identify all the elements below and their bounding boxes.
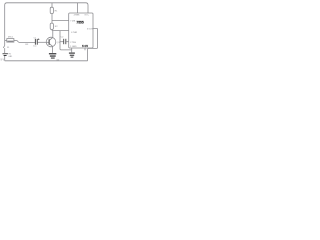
wire R1 top xyxy=(51,3,53,7)
transistor Q1 circle xyxy=(46,37,56,47)
wire node to pin 7 xyxy=(52,20,69,22)
capacitor C1 polarity plus xyxy=(38,38,40,41)
resistor R2 xyxy=(50,23,53,29)
wire C2 right plate to pin 2 xyxy=(66,41,68,43)
svg-text:4 RES: 4 RES xyxy=(74,15,80,17)
wire pin 4 drop xyxy=(77,3,79,13)
svg-text:3 OUT: 3 OUT xyxy=(87,28,94,30)
wire pin 1 down xyxy=(71,48,73,52)
svg-text:R2: R2 xyxy=(55,26,59,28)
wire branch down from pin6 node xyxy=(60,31,72,50)
wire jog down xyxy=(17,40,19,42)
wire to C1 xyxy=(19,41,35,43)
battery B1 short plate xyxy=(4,55,7,56)
svg-text:5 CV: 5 CV xyxy=(82,45,88,48)
wire bottom 0V rail xyxy=(5,60,88,62)
svg-text:MIC1: MIC1 xyxy=(8,37,14,39)
capacitor C2 plates xyxy=(62,39,65,44)
wire S1 bottom to battery xyxy=(4,48,6,53)
wire R2 bottom xyxy=(51,30,53,31)
svg-text:9 V: 9 V xyxy=(1,59,5,62)
svg-text:R1: R1 xyxy=(55,10,59,12)
switch S1 blade xyxy=(3,45,4,48)
wire rail to MIC1 xyxy=(5,39,7,41)
wire C1 to base xyxy=(38,41,49,43)
svg-text:8 V+: 8 V+ xyxy=(85,15,90,17)
transistor Q1 emitter diagonal xyxy=(50,44,53,47)
ground G1 bars xyxy=(49,53,56,54)
wire MIC1 to jog xyxy=(14,39,17,41)
wire emitter down to ground xyxy=(52,46,54,53)
capacitor C1 plates xyxy=(34,39,37,45)
svg-text:7555: 7555 xyxy=(76,21,84,25)
svg-text:R3: R3 xyxy=(25,44,29,46)
wire node to pin 6 xyxy=(52,30,69,32)
svg-text:C1: C1 xyxy=(34,37,38,39)
wire to C2 left plate xyxy=(60,41,63,43)
microphone MIC1 box xyxy=(7,39,14,43)
transistor Q1 base bar xyxy=(49,39,50,45)
wire V+ rail: left rail up, top rail, down to pin 8 xyxy=(5,3,88,41)
svg-text:6 THR: 6 THR xyxy=(71,32,77,34)
svg-text:GB1: GB1 xyxy=(8,56,13,58)
transistor Q1 collector diagonal xyxy=(50,37,53,40)
battery B1 long plate xyxy=(3,52,8,55)
wire battery bottom to rail xyxy=(4,56,6,61)
wire collector riser xyxy=(52,31,54,37)
wire output pin 3 to right and down to rail xyxy=(88,28,98,60)
svg-text:7 DIS: 7 DIS xyxy=(70,20,76,22)
svg-text:10u: 10u xyxy=(33,45,36,47)
ground G2 bars xyxy=(69,53,75,54)
svg-text:C2: C2 xyxy=(61,36,65,38)
wire pin 5 stub xyxy=(84,48,86,50)
IC U1 7555 box xyxy=(69,13,93,48)
microphone MIC1 inner band xyxy=(7,41,13,42)
wire R1 bottom to node xyxy=(51,14,53,24)
svg-text:1 GND: 1 GND xyxy=(70,46,77,48)
svg-text:2 TRG: 2 TRG xyxy=(70,42,76,44)
wire switch S1 top xyxy=(4,41,6,46)
resistor R1 xyxy=(50,7,53,13)
svg-text:S1: S1 xyxy=(7,47,9,49)
